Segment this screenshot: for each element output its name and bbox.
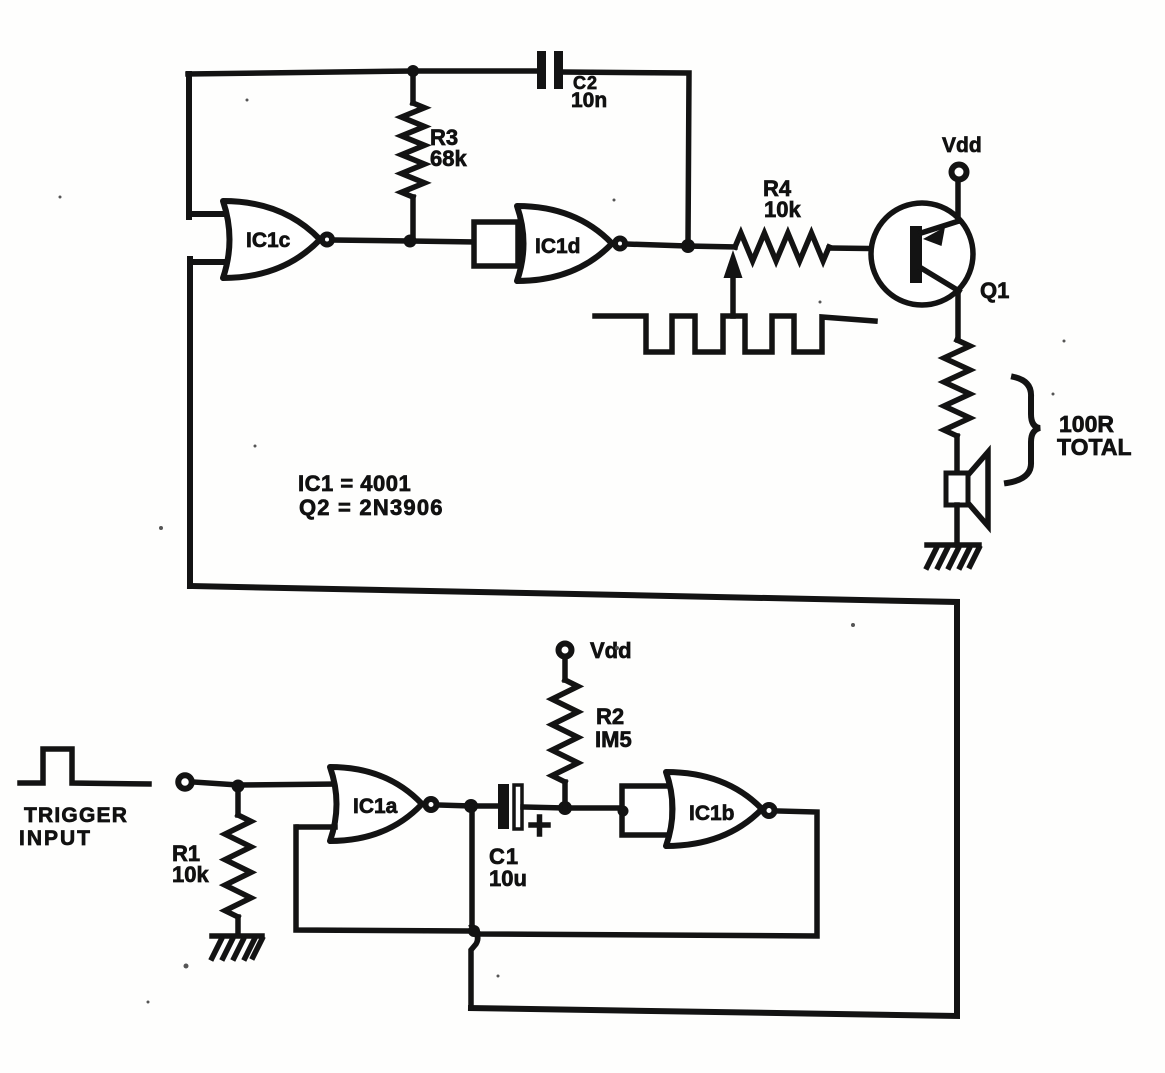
svg-text:10n: 10n: [571, 89, 607, 112]
svg-text:68k: 68k: [430, 146, 467, 171]
waveform arrow pointer: [724, 250, 743, 316]
ground (speaker): [927, 545, 979, 567]
wire resistor to speaker: [954, 436, 960, 475]
wire trigger to IC1a input 1: [193, 782, 336, 785]
wire left rail lower (IC1c input 2 down to loop): [187, 259, 193, 586]
brace 100R total: [1007, 377, 1040, 483]
label C1 value: [489, 844, 527, 891]
resistor R3: [402, 71, 425, 241]
svg-text:Q2 = 2N3906: Q2 = 2N3906: [299, 495, 444, 520]
power Vdd terminal (top): [952, 165, 967, 180]
trigger pulse waveform: [20, 749, 149, 784]
wire IC1b output feedback to IC1a input 2: [296, 811, 817, 936]
svg-text:TOTAL: TOTAL: [1057, 434, 1132, 460]
svg-text:Vdd: Vdd: [942, 134, 982, 157]
label C2 value: [571, 73, 607, 112]
wire left rail upper (to IC1c input 1): [186, 74, 192, 217]
capacitor C2: [537, 51, 563, 89]
wire C1 to IC1b input: [523, 807, 624, 808]
node R2 bottom junction: [558, 801, 572, 815]
waveform square wave: [595, 316, 875, 352]
speaker LS1: [946, 452, 988, 526]
svg-text:IC1 = 4001: IC1 = 4001: [298, 471, 411, 496]
resistor R2: [552, 659, 578, 808]
wire IC1c output to IC1d input: [334, 240, 474, 242]
svg-text:10k: 10k: [764, 197, 801, 222]
wire Q1 emitter to Vdd: [955, 182, 961, 221]
ground (R1): [212, 936, 262, 958]
op-amp IC1c (NOR gate): [223, 201, 332, 278]
label IC1/Q2 part numbers: [298, 471, 444, 520]
node R3 top junction: [407, 65, 419, 77]
label 100R TOTAL: [1057, 411, 1132, 460]
svg-text:IC1d: IC1d: [535, 235, 581, 258]
resistor R4: [735, 233, 829, 261]
svg-text:INPUT: INPUT: [19, 827, 92, 850]
svg-text:IC1b: IC1b: [689, 802, 735, 825]
svg-text:10k: 10k: [172, 862, 209, 887]
label R1 value: [172, 841, 209, 887]
op-amp IC1a (NOR gate): [330, 767, 437, 841]
wire IC1a output down to loop (crossover jog): [468, 806, 480, 1008]
label TRIGGER INPUT: [19, 804, 128, 850]
node IC1c output junction: [404, 235, 417, 248]
wire IC1a output to C1: [438, 805, 498, 806]
node IC1b input junction: [618, 806, 629, 817]
speckle marks (scan noise): [59, 99, 1066, 1004]
wire top feedback rail: [188, 71, 538, 74]
capacitor C1 (polarized): [498, 784, 522, 829]
resistor R1: [225, 786, 251, 935]
svg-text:R2: R2: [596, 704, 624, 729]
transistor Q1 (PNP): [871, 203, 973, 305]
svg-text:IC1c: IC1c: [246, 229, 291, 252]
svg-text:IC1a: IC1a: [353, 795, 398, 818]
wire IC1c input 2 stub: [190, 259, 227, 265]
wire Q1 collector down: [955, 291, 961, 340]
wire R4 to Q1 base: [829, 248, 911, 249]
node IC1a output junction: [464, 799, 478, 813]
svg-text:Vdd: Vdd: [590, 638, 632, 663]
wire speaker to ground: [954, 505, 960, 545]
wire junction to R4: [688, 246, 735, 247]
power Vdd terminal (bottom): [559, 644, 572, 657]
svg-text:IM5: IM5: [595, 727, 632, 752]
node R1 top junction: [232, 780, 245, 793]
op-amp IC1b (NOR gate, inputs strapped): [622, 772, 775, 846]
label R4 value: [763, 176, 801, 222]
svg-text:TRIGGER: TRIGGER: [24, 804, 128, 827]
wire IC1c input 1 stub: [189, 211, 227, 217]
op-amp IC1d (NOR gate, inputs strapped): [474, 206, 625, 281]
label R3 value: [430, 125, 467, 171]
node IC1d output junction: [681, 239, 695, 253]
label C1 plus: [531, 817, 548, 834]
wire enable loop (IC1a out to IC1c in2): [190, 586, 957, 1016]
svg-text:10u: 10u: [489, 866, 527, 891]
wire C2 right to corner: [562, 72, 689, 246]
resistor speaker series 100R: [944, 340, 970, 436]
svg-text:Q1: Q1: [980, 278, 1009, 303]
wire IC1a input 2 stub: [298, 824, 335, 830]
wire IC1d output: [626, 244, 688, 246]
label R2 value: [595, 704, 632, 752]
node trigger input terminal: [178, 775, 192, 789]
